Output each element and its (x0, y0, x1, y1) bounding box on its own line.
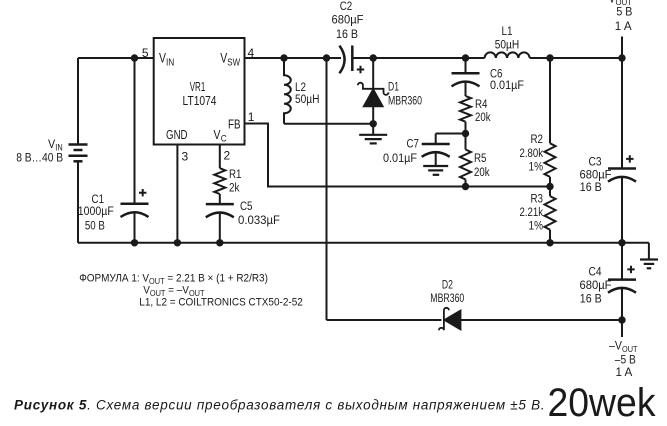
formula text block (79, 272, 268, 286)
wire vertical drop to D2 net (326, 58, 328, 320)
svg-text:5 В: 5 В (616, 6, 632, 18)
svg-text:C2: C2 (340, 1, 353, 13)
svg-text:–5 В: –5 В (615, 354, 636, 366)
capacitor C4 plates (608, 278, 636, 281)
wire C6 to R4 (465, 81, 467, 96)
diode D2 MBR360 horizontal (439, 308, 449, 331)
wire D2 net left (327, 319, 442, 321)
svg-text:16 В: 16 В (580, 293, 602, 305)
battery B1 VIN source (69, 145, 88, 162)
svg-text:MBR360: MBR360 (388, 96, 422, 108)
wire C7 to ground (435, 152, 437, 166)
svg-text:–V: –V (609, 341, 622, 353)
resistor R1 (214, 168, 225, 194)
wire R2 top (549, 58, 551, 143)
wire C3 top (621, 58, 623, 169)
op-amp regulator VR1 LT1074 box (154, 38, 245, 145)
svg-text:VR1: VR1 (190, 80, 206, 94)
svg-text:LT1074: LT1074 (183, 94, 217, 108)
svg-text:C: C (221, 134, 227, 145)
ground (output) (640, 260, 658, 269)
capacitor C5 plates (206, 203, 234, 206)
svg-text:0.033µF: 0.033µF (238, 215, 280, 227)
node dots (131, 54, 626, 323)
svg-text:3: 3 (182, 150, 189, 164)
svg-text:4: 4 (248, 46, 255, 60)
svg-text:L2: L2 (295, 82, 306, 94)
svg-text:1 A: 1 A (615, 21, 632, 33)
capacitor C7 plates (422, 143, 450, 146)
wire C7 branch horizontal (436, 133, 466, 135)
svg-text:MBR360: MBR360 (430, 293, 464, 305)
ground (C7) (423, 166, 448, 175)
wire C5 bottom (219, 212, 221, 243)
wire VSW rail to C2 (245, 57, 342, 59)
svg-text:2.21k: 2.21k (520, 207, 544, 219)
plus sign C1 (139, 189, 146, 196)
wire left vertical (battery top) (77, 58, 79, 144)
resistor R2 (545, 143, 556, 177)
wire R1 to C5 (219, 194, 221, 204)
resistor R4 (460, 96, 471, 122)
wire C4 top (621, 243, 623, 280)
wire C3 bottom (621, 176, 623, 243)
svg-text:D1: D1 (388, 82, 399, 94)
svg-text:5: 5 (142, 46, 149, 60)
svg-text:2.80k: 2.80k (520, 148, 544, 160)
svg-text:50µH: 50µH (295, 94, 320, 106)
wire R5 to FB line (465, 179, 467, 186)
capacitor C3 plates (608, 167, 636, 170)
wire L1 to VOUT node (530, 57, 622, 59)
svg-text:50 В: 50 В (85, 221, 105, 233)
svg-text:C7: C7 (407, 139, 420, 151)
svg-text:L1, L2 = COILTRONICS CTX50-2-5: L1, L2 = COILTRONICS CTX50-2-52 (139, 296, 302, 309)
svg-text:20k: 20k (474, 167, 490, 179)
svg-text:IN: IN (166, 58, 174, 69)
wire R2 to FB line (549, 177, 551, 196)
wire VC pin 2 (219, 145, 221, 169)
svg-text:0.01µF: 0.01µF (490, 80, 524, 92)
svg-text:FB: FB (228, 117, 241, 131)
resistor R5 (460, 150, 471, 180)
wire C7 stub (435, 134, 437, 145)
svg-text:0.01µF: 0.01µF (383, 153, 417, 165)
wire R3 bottom (549, 230, 551, 243)
svg-text:L1: L1 (502, 26, 513, 38)
svg-text:R2: R2 (531, 134, 544, 146)
svg-text:SW: SW (227, 58, 240, 69)
svg-text:Рисунок 5. Схема версии преобр: Рисунок 5. Схема версии преобразователя … (14, 398, 545, 413)
wire GND pin 3 (176, 145, 178, 243)
svg-text:1%: 1% (529, 162, 544, 174)
svg-text:50µH: 50µH (495, 40, 520, 52)
svg-text:2k: 2k (229, 182, 240, 194)
diode D1 MBR360 vertical (372, 58, 374, 89)
wire VIN top rail (78, 57, 154, 59)
svg-text:1000µF: 1000µF (78, 206, 114, 218)
wire C6 branch (465, 58, 467, 73)
capacitor C2 plates (339, 46, 344, 74)
svg-text:16 В: 16 В (580, 182, 602, 194)
svg-text:R4: R4 (475, 99, 488, 111)
wire FB pin 1 (245, 124, 551, 187)
wire left vertical (battery bottom) (77, 162, 79, 243)
wire bottom ground rail (78, 242, 649, 244)
svg-text:680µF: 680µF (580, 169, 612, 181)
svg-text:V: V (48, 137, 55, 151)
svg-text:OUT: OUT (622, 344, 638, 354)
wire C1 branch bottom (134, 212, 136, 243)
svg-text:680µF: 680µF (332, 15, 364, 27)
plus sign C2 (357, 66, 364, 73)
wire D1 to ground (372, 124, 374, 135)
resistor R3 (545, 196, 556, 230)
svg-text:1%: 1% (529, 221, 544, 233)
svg-text:8 В…40 В: 8 В…40 В (16, 153, 63, 165)
svg-text:16 В: 16 В (336, 29, 358, 41)
ground (D1) (359, 135, 387, 144)
svg-text:GND: GND (166, 128, 188, 142)
svg-text:C4: C4 (589, 267, 603, 279)
plus sign C4 (627, 266, 634, 273)
wire -VOUT stub (621, 320, 623, 337)
wire L2 bottom to D1 (284, 123, 373, 125)
svg-text:20k: 20k (475, 112, 491, 124)
svg-text:C1: C1 (92, 194, 105, 206)
inductor L2 (284, 58, 291, 124)
wire D2 net right (460, 319, 622, 321)
svg-text:D2: D2 (442, 280, 453, 292)
svg-text:IN: IN (55, 143, 62, 153)
wire VOUT stub (621, 37, 623, 59)
wire C2 to L1 (352, 57, 484, 59)
wire R4 to R5 node (465, 122, 467, 150)
svg-text:20wek: 20wek (548, 381, 657, 425)
wire right ground stub (648, 243, 650, 260)
svg-text:C3: C3 (589, 157, 602, 169)
svg-text:1 A: 1 A (616, 367, 633, 379)
wire C1 branch top (134, 58, 136, 204)
wire C4 bottom (621, 287, 623, 320)
svg-text:1: 1 (248, 110, 255, 124)
svg-text:C6: C6 (490, 69, 503, 81)
inductor L1 (485, 52, 530, 58)
capacitor C1 plates (121, 203, 149, 206)
plus sign C3 (626, 155, 633, 162)
svg-text:R1: R1 (229, 169, 242, 181)
svg-text:2: 2 (224, 149, 231, 163)
svg-text:680µF: 680µF (580, 280, 612, 292)
capacitor C6 plates (452, 72, 480, 75)
svg-text:R5: R5 (474, 153, 487, 165)
svg-text:C5: C5 (240, 201, 253, 213)
svg-text:R3: R3 (531, 194, 544, 206)
